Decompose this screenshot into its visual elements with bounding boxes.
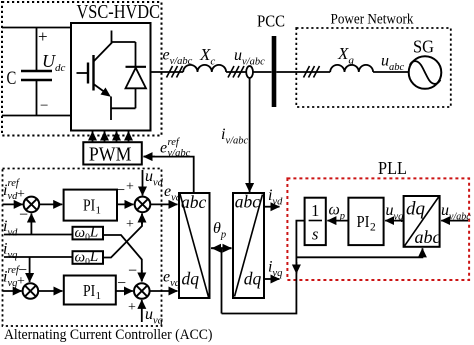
- wire theta_p double arrow: [211, 247, 232, 249]
- svg-text:Alternating Current Controller: Alternating Current Controller (ACC): [4, 327, 213, 343]
- wire PI1 to S2: [117, 203, 134, 205]
- wire converter ac output: [151, 71, 184, 73]
- svg-text:2: 2: [370, 222, 376, 234]
- generator SG: [409, 56, 442, 89]
- PI2 block: [348, 198, 383, 245]
- svg-text:1: 1: [311, 201, 319, 220]
- svg-text:dq: dq: [244, 269, 262, 289]
- node measurement point (ellipse): [246, 66, 253, 78]
- wire i_vq output: [264, 278, 280, 280]
- wire u_vd drop: [142, 170, 144, 196]
- diode D1: [111, 42, 146, 108]
- integrator block 1/s: [305, 198, 326, 245]
- capacitor C: [21, 28, 52, 116]
- svg-text:+: +: [17, 187, 25, 202]
- svg-text:+: +: [126, 217, 134, 232]
- wire i_ref_vd input: [3, 203, 23, 205]
- PI1 block (q-axis): [64, 276, 116, 305]
- svg-text:PI: PI: [357, 212, 370, 231]
- wire S3 to PI1 lower: [38, 290, 62, 292]
- wire i_ref_vq input: [3, 290, 22, 292]
- svg-text:Power Network: Power Network: [331, 11, 415, 27]
- wire theta feedback to dq/abc: [296, 248, 422, 257]
- wire PCC to grid: [276, 71, 330, 73]
- wire theta output of integrator: [222, 221, 305, 314]
- wire e_ref to PWM: [144, 157, 194, 193]
- PI1 block (d-axis): [64, 190, 117, 221]
- wire PI1 lower to S4: [116, 290, 133, 292]
- svg-text:−: −: [18, 262, 27, 279]
- svg-text:PWM: PWM: [89, 143, 131, 165]
- svg-text:dq: dq: [406, 199, 426, 220]
- svg-text:s: s: [312, 225, 318, 244]
- summing junction S3: [23, 283, 39, 299]
- wire i_v/abc measurement drop: [249, 78, 251, 192]
- svg-text:abc: abc: [181, 192, 207, 212]
- omega0L block (lower): [73, 249, 104, 267]
- dashed enclosure ACC: [3, 169, 162, 327]
- transform block abc/dq (current measurement): [233, 192, 264, 299]
- svg-text:+: +: [128, 300, 136, 315]
- summing junction S2: [135, 197, 151, 213]
- wire theta_p riser: [221, 248, 223, 313]
- svg-text:e: e: [160, 140, 167, 157]
- omega0L block (upper): [73, 225, 104, 243]
- svg-text:1: 1: [96, 205, 102, 217]
- svg-text:−: −: [128, 263, 137, 280]
- PWM block: [83, 142, 142, 165]
- wire e_vq: [149, 290, 177, 292]
- wire i_vq feedback drop: [29, 257, 31, 282]
- label i_ref_vq: [3, 262, 27, 289]
- svg-text:PI: PI: [83, 196, 95, 215]
- transform block dq/abc (PLL): [404, 196, 441, 247]
- svg-text:vq: vq: [8, 278, 18, 289]
- dashed enclosure VSC-HVDC converter station: [2, 2, 162, 136]
- svg-text:+: +: [126, 180, 134, 195]
- svg-text:SG: SG: [413, 36, 434, 56]
- svg-text:v/abc: v/abc: [168, 148, 191, 159]
- svg-text:−: −: [117, 275, 126, 292]
- wire i_vq: [4, 256, 72, 258]
- three-phase slash marks: [167, 66, 183, 78]
- dashed enclosure Power Network: [296, 28, 451, 107]
- label e_ref_v/abc: [160, 137, 191, 159]
- wire u_v/abc into PLL: [441, 220, 468, 222]
- wire u_vq rise: [141, 300, 143, 322]
- svg-text:abc: abc: [235, 192, 260, 212]
- PCC bus bar: [272, 36, 277, 107]
- svg-text:PCC: PCC: [257, 11, 285, 30]
- svg-text:−: −: [19, 207, 28, 224]
- converter bridge box U1: [71, 23, 151, 131]
- svg-text:VSC-HVDC: VSC-HVDC: [77, 2, 161, 23]
- wire PI2 to 1/s: [327, 220, 348, 222]
- wire i_vd feedback riser: [30, 214, 32, 235]
- svg-text:−: −: [40, 98, 48, 114]
- wire dc negative: [2, 115, 71, 117]
- svg-text:PLL: PLL: [378, 158, 407, 178]
- dashed enclosure PLL (red): [287, 178, 469, 280]
- svg-text:1: 1: [96, 290, 102, 302]
- wire cross-coupling lower to upper junction: [103, 214, 142, 258]
- summing junction S1: [24, 197, 40, 213]
- wire i_vd: [4, 234, 73, 236]
- inductor Xc: [183, 65, 226, 72]
- summing junction S4: [134, 283, 150, 299]
- wire dq/abc to PI2: [385, 220, 403, 222]
- svg-text:−: −: [116, 182, 125, 199]
- svg-text:dq: dq: [182, 269, 200, 289]
- wire dc positive: [2, 27, 71, 29]
- wire e_vd: [150, 203, 177, 205]
- three-phase slash marks: [228, 66, 244, 78]
- gate drive arrows: [93, 132, 129, 143]
- wire Xc to PCC: [226, 71, 271, 73]
- svg-text:+: +: [38, 27, 48, 46]
- transform block abc/dq (ACC output): [179, 192, 210, 298]
- wire cross-coupling upper to lower junction: [103, 235, 142, 282]
- three-phase slash marks: [304, 66, 320, 78]
- inductor Xg: [330, 65, 373, 72]
- wire i_vd output: [264, 206, 280, 208]
- wire Xg to SG: [373, 71, 409, 73]
- svg-text:C: C: [7, 68, 17, 89]
- svg-text:abc: abc: [415, 227, 441, 247]
- wire S1 to PI1: [39, 203, 62, 205]
- label i_ref_vd: [3, 178, 25, 202]
- svg-text:PI: PI: [83, 281, 95, 300]
- transistor Q1 (IGBT): [77, 31, 113, 121]
